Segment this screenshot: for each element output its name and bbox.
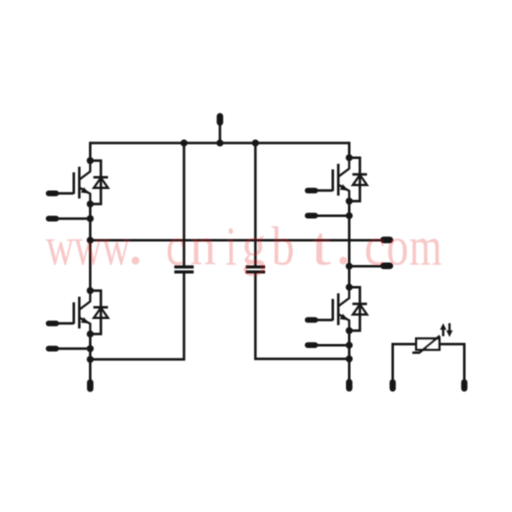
wire: auxiliary emitter lead of Q3 xyxy=(57,347,90,350)
terminal: right DC- pin (bottom) xyxy=(346,379,352,392)
svg-text:t: t xyxy=(312,216,332,277)
junction: positive bus / DC+ terminal xyxy=(216,140,223,147)
wire: gate lead of Q1 xyxy=(57,192,74,195)
junction: collector node of Q1 xyxy=(87,157,94,164)
wire: C1 bottom lead to left DC- node xyxy=(90,273,184,359)
junction: auxiliary emitter node of Q2 xyxy=(346,212,353,219)
wire: C1 top lead from positive bus xyxy=(183,143,186,266)
capacitor C2 (right DC-link capacitor) xyxy=(246,267,265,272)
transistor Q4 (bottom-right IGBT) xyxy=(333,287,349,330)
terminal: auxiliary emitter pin of Q3 xyxy=(46,346,59,352)
wire: AC2 node down to Q4 collector xyxy=(348,266,351,287)
diode D2 (antiparallel freewheel diode of Q2) xyxy=(349,158,367,201)
diode D3 (antiparallel freewheel diode of Q3) xyxy=(90,291,108,334)
junction: left DC- node xyxy=(87,356,94,363)
svg-text:n: n xyxy=(190,216,216,277)
watermark text www.cnigbt.com (red translucent) xyxy=(46,216,442,277)
junction: emitter node of Q1 xyxy=(87,201,94,208)
wire: right DC- node to bottom terminal xyxy=(348,359,351,380)
terminal: auxiliary emitter pin of Q4 xyxy=(305,342,318,348)
terminal: AC1 output pin (right) xyxy=(380,237,393,244)
thermistor RT1 bidirectional arrow mark xyxy=(440,323,453,337)
junction: right phase node (AC2) xyxy=(346,263,353,270)
wire: Q2 emitter through mid crossing to AC2 node xyxy=(348,201,351,266)
junction: emitter node of Q4 xyxy=(346,327,353,334)
terminal: gate pin of Q4 xyxy=(305,317,318,323)
terminal: gate pin of Q1 xyxy=(46,191,59,197)
svg-text:g: g xyxy=(242,216,266,277)
terminal: gate pin of Q3 xyxy=(46,321,59,327)
transistor Q1 (top-left IGBT) xyxy=(74,161,90,204)
diode D4 (antiparallel freewheel diode of Q4) xyxy=(349,287,367,330)
terminal: RT1 pin 2 (bottom) xyxy=(461,379,467,391)
svg-text:i: i xyxy=(225,216,237,277)
wire: RT1 right lead xyxy=(439,344,464,380)
wire: left leg top drop to Q1 collector xyxy=(89,142,92,161)
junction: positive bus / C2 xyxy=(252,140,259,147)
terminal: auxiliary emitter pin of Q1 xyxy=(46,216,59,222)
wire: positive DC bus (top horizontal rail) xyxy=(90,142,349,145)
wire: auxiliary emitter lead of Q1 xyxy=(57,217,90,220)
terminal: RT1 pin 1 (bottom) xyxy=(390,379,396,391)
wire: Q3 emitter down to left DC- node xyxy=(89,334,92,359)
wire: auxiliary emitter lead of Q2 xyxy=(316,214,349,217)
wire: left phase node down to Q3 collector xyxy=(89,240,92,291)
junction: collector node of Q4 xyxy=(346,284,353,291)
diode D1 (antiparallel freewheel diode of Q1) xyxy=(90,161,108,204)
wire: AC1 output rail from left phase node to AC1 terminal xyxy=(90,239,382,242)
wire: C2 top lead from positive bus xyxy=(254,143,257,266)
wire: auxiliary emitter lead of Q4 xyxy=(316,344,349,347)
transistor Q3 (bottom-left IGBT) xyxy=(74,291,90,334)
terminal: DC+ input pin (top) xyxy=(217,113,224,126)
wire: gate lead of Q2 xyxy=(316,189,333,192)
wire: C2 bottom lead to right DC- node xyxy=(255,273,349,359)
thermistor RT1 (NTC temperature sensor) xyxy=(412,336,440,353)
wire: right leg top drop to Q2 collector xyxy=(348,142,351,158)
junction: collector node of Q3 xyxy=(87,287,94,294)
svg-text:c: c xyxy=(166,216,185,277)
wire: gate lead of Q3 xyxy=(57,322,74,325)
wire: Q1 emitter to phase node (left leg) xyxy=(89,204,92,240)
junction: emitter node of Q2 xyxy=(346,198,353,205)
svg-text:c: c xyxy=(364,216,385,277)
junction: right DC- node xyxy=(346,355,353,362)
terminal: left DC- pin (bottom) xyxy=(87,379,93,392)
junction: auxiliary emitter node of Q3 xyxy=(87,345,94,352)
junction: auxiliary emitter node of Q4 xyxy=(346,342,353,349)
svg-text:w: w xyxy=(46,216,75,277)
junction: positive bus / C1 xyxy=(181,140,188,147)
svg-text:w: w xyxy=(102,216,130,277)
svg-text:m: m xyxy=(409,216,442,277)
terminal: gate pin of Q2 xyxy=(305,188,318,194)
wire: left DC- node to bottom terminal xyxy=(89,359,92,380)
junction: emitter node of Q3 xyxy=(87,331,94,338)
terminal: auxiliary emitter pin of Q2 xyxy=(305,213,318,219)
terminal: AC2 output pin (right) xyxy=(380,263,393,270)
wire: gate lead of Q4 xyxy=(316,319,333,322)
junction: collector node of Q2 xyxy=(346,154,353,161)
wire: Q4 emitter down to right DC- node xyxy=(348,331,351,359)
wire: right phase node to AC2 terminal xyxy=(349,265,382,268)
transistor Q2 (top-right IGBT) xyxy=(333,158,349,201)
wire: RT1 left lead xyxy=(393,344,417,380)
svg-text:o: o xyxy=(387,216,409,277)
svg-text:b: b xyxy=(272,216,295,277)
svg-text:w: w xyxy=(74,216,103,277)
wire: DC+ terminal to positive bus xyxy=(219,125,222,143)
junction: auxiliary emitter node of Q1 xyxy=(87,215,94,222)
capacitor C1 (left DC-link capacitor) xyxy=(174,267,193,272)
junction: left phase node (AC1) xyxy=(87,237,94,244)
